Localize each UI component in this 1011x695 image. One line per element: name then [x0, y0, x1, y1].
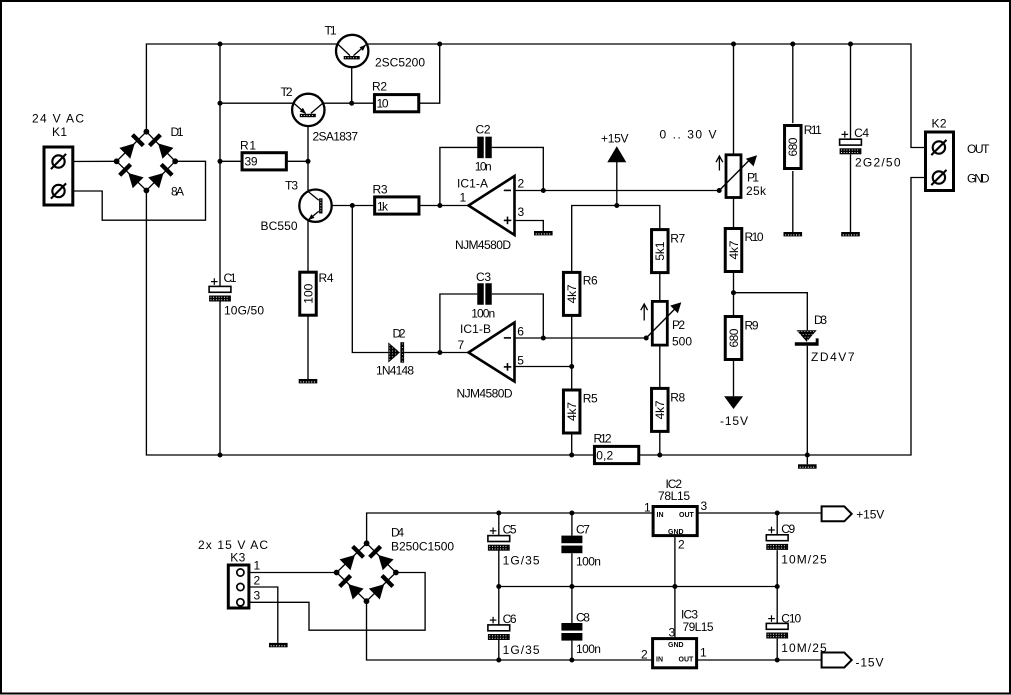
ground at IC1-A pin3: [534, 231, 553, 235]
svg-text:4k7: 4k7: [727, 240, 741, 259]
svg-text:1: 1: [644, 501, 651, 515]
resistor R3: [373, 183, 419, 215]
svg-text:7: 7: [458, 338, 465, 352]
svg-text:OUT: OUT: [679, 512, 695, 519]
wire K3 pin3 to D4 right vertex: [244, 573, 425, 631]
svg-text:NJM4580D: NJM4580D: [457, 387, 513, 401]
junction dots bottom section: [496, 511, 779, 663]
wire C5 branch: [498, 513, 500, 536]
wire T3 emitter to R4: [307, 220, 309, 271]
-15V output flag: [822, 653, 884, 670]
node dot D4 left: [334, 570, 340, 576]
svg-text:1: 1: [700, 646, 707, 660]
svg-text:+15V: +15V: [601, 132, 629, 146]
svg-text:78L15: 78L15: [658, 489, 690, 503]
svg-text:4k7: 4k7: [565, 284, 579, 303]
wire R10 to R9: [733, 272, 735, 315]
wire R6 to R5: [571, 316, 573, 389]
node R1/T2/T3: [306, 159, 311, 164]
capacitor C5: [488, 523, 540, 568]
svg-text:P1: P1: [747, 171, 759, 185]
ground below C4: [841, 232, 860, 236]
wire top rail right (regulated output to K2 OUT): [367, 44, 926, 148]
wire C2 feedback right: [492, 147, 544, 190]
transistor T2: [281, 85, 359, 144]
capacitor C8: [561, 611, 601, 656]
svg-text:BC550: BC550: [261, 219, 298, 233]
+15V output flag: [822, 506, 885, 521]
wire C1 branch lower: [219, 301, 221, 455]
node IC1-B pin7 / C3 feedback: [437, 350, 442, 355]
node R10/R9/D3: [731, 290, 736, 295]
node rail at R8: [657, 453, 662, 458]
svg-text:IN: IN: [656, 656, 663, 663]
wire D4 top vertex to +rail: [367, 513, 653, 543]
wire C3 feedback left: [440, 294, 477, 353]
potentiometer P2: [641, 301, 693, 348]
wire K3 pin2 to ground: [244, 587, 278, 643]
wire R1 right to node: [287, 160, 308, 162]
bridge rectifier D1: [117, 125, 184, 199]
diode D2: [376, 327, 414, 378]
node -rail at C6: [496, 658, 501, 663]
svg-text:T3: T3: [285, 179, 298, 193]
node dot D1 left: [114, 158, 120, 164]
svg-text:1N4148: 1N4148: [376, 364, 414, 378]
capacitor C7: [561, 523, 601, 569]
svg-text:D2: D2: [393, 327, 406, 341]
svg-text:100n: 100n: [471, 306, 495, 320]
screw terminal K2-1: [931, 140, 946, 155]
wire IC1-A pin3 to ground: [515, 221, 544, 232]
svg-text:25k: 25k: [746, 184, 767, 198]
wire P1 to R10: [733, 198, 735, 228]
terminal block K2: [926, 117, 991, 191]
svg-text:1: 1: [460, 190, 467, 204]
wire R11 top: [792, 44, 794, 123]
node IC1-A output / C2 feedback: [437, 203, 442, 208]
wire D2 cathode to IC1-B pin7: [404, 352, 468, 354]
wire R1 left: [220, 160, 242, 162]
wire R4 to ground: [307, 316, 309, 379]
svg-text:10M/25: 10M/25: [781, 553, 827, 567]
node +15V on supply tee: [614, 203, 619, 208]
pin K3-3: [237, 599, 244, 606]
resistor R9: [725, 317, 759, 360]
-15V supply arrow: [720, 396, 748, 428]
pin K3-1: [237, 569, 244, 576]
node pin5 / R6-R5: [569, 364, 574, 369]
svg-text:24 V AC: 24 V AC: [32, 112, 84, 126]
svg-text:3: 3: [254, 588, 261, 602]
svg-text:R3: R3: [373, 183, 388, 197]
svg-text:R5: R5: [583, 392, 598, 406]
zener diode D3: [795, 313, 855, 364]
screw terminal K2-2: [931, 170, 946, 185]
svg-text:2SC5200: 2SC5200: [375, 56, 425, 70]
resistor R2: [372, 80, 419, 112]
svg-text:C3: C3: [476, 270, 491, 284]
node top rail at R11: [790, 42, 795, 47]
screw terminal K1-1: [51, 154, 66, 169]
wire node to D2 anode: [352, 206, 388, 353]
node IC1-B pin6 / C3: [541, 336, 546, 341]
wire T1 base down: [351, 60, 353, 104]
svg-text:4k7: 4k7: [565, 402, 579, 421]
svg-text:6: 6: [517, 325, 524, 339]
resistor R1: [240, 138, 286, 170]
svg-text:R10: R10: [745, 230, 764, 244]
svg-text:680: 680: [786, 137, 800, 156]
capacitor C9: [766, 522, 827, 567]
wire IC1-A pin2 row to P1 wiper: [515, 190, 720, 192]
wire mid rail: [499, 586, 777, 588]
node P1 wiper: [717, 188, 722, 193]
svg-text:C6: C6: [503, 612, 517, 626]
resistor R4: [300, 271, 334, 315]
wire K1 pin2 loop to D1 right vertex: [65, 161, 206, 220]
svg-text:0 .. 30 V: 0 .. 30 V: [660, 128, 717, 142]
node dot D4 top: [364, 540, 370, 546]
node top rail at R2: [437, 42, 442, 47]
svg-text:ZD4V7: ZD4V7: [811, 350, 855, 364]
junction dots top section: [218, 42, 854, 458]
svg-text:-15V: -15V: [856, 655, 884, 669]
svg-text:10n: 10n: [475, 160, 492, 174]
wire C4 to ground: [850, 154, 852, 232]
wire R9 to -15V arrow: [733, 361, 735, 396]
capacitor C1: [209, 271, 264, 318]
node IC1-A pin2 / C2: [541, 188, 546, 193]
wire IC3 OUT to -15V flag: [697, 659, 822, 661]
node dot D1 top: [144, 129, 150, 135]
svg-text:2: 2: [678, 538, 685, 552]
wire R7 to P2: [659, 273, 661, 300]
resistor R7: [652, 230, 686, 273]
svg-text:D4: D4: [391, 526, 404, 540]
node rail at R5: [569, 453, 574, 458]
wire C10 branch: [776, 587, 778, 624]
node T1 base: [349, 101, 354, 106]
transistor T1: [325, 24, 426, 70]
resistor R5: [563, 390, 598, 433]
svg-text:3: 3: [669, 626, 676, 640]
svg-text:T1: T1: [325, 24, 337, 38]
svg-text:100n: 100n: [576, 642, 601, 656]
svg-text:D1: D1: [171, 125, 184, 139]
wire T2 collector to R2: [323, 102, 374, 104]
svg-text:R4: R4: [319, 271, 334, 285]
node dot D1 bottom: [144, 188, 150, 194]
node mid rail at C7/C8: [569, 584, 574, 589]
node R1 row at C1 branch: [218, 159, 223, 164]
svg-text:2SA1837: 2SA1837: [313, 130, 359, 144]
svg-text:IC1-A: IC1-A: [457, 176, 488, 190]
node mid rail at C9/C10: [775, 584, 780, 589]
wire P2 to R8: [659, 346, 661, 387]
node mid rail at GND pins: [672, 584, 677, 589]
bridge rectifier D4: [337, 526, 455, 602]
screw terminal K1-2: [51, 183, 66, 198]
node top rail at C1: [218, 42, 223, 47]
svg-text:GND: GND: [668, 529, 684, 536]
svg-text:P2: P2: [672, 318, 685, 332]
svg-text:39: 39: [245, 155, 258, 169]
svg-text:1k: 1k: [377, 199, 389, 213]
svg-text:C7: C7: [576, 523, 590, 537]
svg-text:100: 100: [301, 283, 315, 303]
svg-text:C8: C8: [576, 611, 590, 625]
wire K1 pin1 to D1 left vertex: [65, 160, 117, 162]
svg-text:1G/35: 1G/35: [503, 554, 540, 568]
node dot D4 right: [393, 570, 399, 576]
wire K3 pin1 to D4 left vertex: [244, 572, 337, 574]
wire node to D3: [734, 293, 808, 331]
svg-text:5: 5: [517, 354, 524, 368]
op-amp IC1-B: [457, 322, 525, 401]
node rail at D3: [805, 453, 810, 458]
node rail at C1: [218, 453, 223, 458]
ground at K3 pin2: [269, 643, 288, 647]
node -rail at C8: [569, 658, 574, 663]
capacitor C3: [471, 270, 495, 320]
node +15V rail at C9: [775, 511, 780, 516]
wire IC2 OUT to +15V flag: [697, 512, 822, 514]
svg-text:R9: R9: [745, 319, 759, 333]
wire R5 to rail: [571, 434, 573, 455]
node T3 base / D2 branch: [350, 203, 355, 208]
resistor R12: [594, 432, 639, 464]
capacitor C6: [488, 612, 540, 657]
svg-text:2: 2: [518, 176, 525, 190]
node +rail at C7: [569, 511, 574, 516]
svg-text:3: 3: [701, 499, 708, 513]
wire T3 base to R3: [323, 205, 374, 207]
svg-text:GND: GND: [967, 171, 990, 185]
svg-text:NJM4580D: NJM4580D: [455, 238, 511, 252]
node dot D4 bottom: [364, 598, 370, 604]
potentiometer P1: [716, 155, 767, 198]
svg-text:1G/35: 1G/35: [503, 643, 540, 657]
svg-text:OUT: OUT: [679, 656, 695, 663]
ground below R4: [299, 379, 318, 383]
svg-text:C9: C9: [781, 522, 795, 536]
node T2 row at C1 branch: [218, 101, 223, 106]
regulator IC3 79L15: [641, 608, 714, 668]
svg-text:10: 10: [377, 97, 389, 111]
regulator IC2 78L15: [644, 477, 708, 552]
svg-text:R8: R8: [670, 391, 685, 405]
wire C6 branch: [498, 587, 500, 626]
wire T2 emitter row: [220, 102, 294, 104]
wire supply tee to R6 and R7: [572, 206, 660, 272]
svg-text:R6: R6: [583, 274, 598, 288]
svg-text:10M/25: 10M/25: [781, 641, 827, 655]
svg-text:0,2: 0,2: [596, 449, 613, 463]
wire T2 base / T3 collector vertical: [307, 117, 309, 191]
svg-text:-15V: -15V: [720, 414, 748, 428]
resistor R6: [563, 272, 598, 315]
svg-text:C5: C5: [503, 523, 517, 537]
capacitor C2: [475, 122, 492, 173]
wire C7 branch: [571, 513, 573, 536]
svg-text:500: 500: [672, 335, 692, 349]
svg-text:C10: C10: [781, 612, 801, 626]
svg-text:3: 3: [518, 205, 525, 219]
svg-text:5k1: 5k1: [653, 241, 667, 260]
node mid rail at C5/C6: [496, 584, 501, 589]
wire IC1-B pin5 row: [515, 366, 572, 368]
svg-text:680: 680: [727, 328, 741, 347]
wire bottom ground rail left of R12: [146, 191, 593, 456]
svg-text:D3: D3: [814, 313, 827, 327]
svg-text:R11: R11: [804, 123, 822, 137]
resistor R11: [785, 123, 823, 169]
wire R11 to ground: [792, 171, 794, 232]
terminal block K3: [198, 538, 268, 608]
wire IC1-B pin6 row to P2 wiper: [515, 337, 647, 339]
svg-text:79L15: 79L15: [683, 620, 714, 634]
terminal block K1: [32, 112, 84, 206]
svg-text:R2: R2: [372, 80, 387, 94]
node +rail at C5: [496, 511, 501, 516]
svg-text:R7: R7: [670, 231, 685, 245]
wire R8 to rail: [659, 432, 661, 455]
svg-text:8A: 8A: [171, 185, 184, 199]
wire C8 branch: [571, 587, 573, 624]
wire IC2 GND / IC3 GND vertical: [674, 537, 676, 639]
svg-text:K2: K2: [932, 117, 947, 131]
op-amp IC1-A: [455, 176, 525, 252]
svg-text:K1: K1: [52, 125, 67, 139]
wire C1 branch upper: [219, 44, 221, 287]
svg-text:R12: R12: [594, 432, 612, 446]
svg-text:4k7: 4k7: [653, 400, 667, 419]
transistor T3: [261, 179, 332, 234]
svg-text:GND: GND: [668, 642, 684, 649]
ground on rail below D3: [798, 464, 817, 468]
wire R2 right to top rail: [420, 44, 440, 103]
wire D3 to rail and ground stub: [806, 346, 808, 465]
node P2 wiper: [644, 336, 649, 341]
svg-text:100n: 100n: [576, 555, 601, 569]
svg-text:K3: K3: [230, 551, 245, 565]
svg-text:10G/50: 10G/50: [224, 304, 264, 318]
svg-text:IN: IN: [657, 512, 664, 519]
node top rail at P1: [731, 42, 736, 47]
svg-text:2: 2: [641, 648, 648, 662]
wire C4 top: [850, 44, 852, 140]
svg-text:C1: C1: [224, 271, 237, 285]
wire C2 feedback left: [440, 147, 477, 205]
node dot D1 right: [172, 158, 178, 164]
svg-text:C2: C2: [476, 122, 491, 136]
wire D4 bottom vertex to -rail: [367, 601, 653, 660]
ground below R11: [784, 232, 803, 236]
resistor R10: [725, 229, 764, 272]
svg-text:2: 2: [254, 573, 261, 587]
node top rail at C4: [848, 42, 853, 47]
svg-text:B250C1500: B250C1500: [391, 540, 454, 554]
wire C9 branch: [776, 513, 778, 535]
svg-text:C4: C4: [854, 126, 869, 140]
pin K3-2: [237, 583, 244, 590]
svg-text:+15V: +15V: [856, 507, 884, 521]
wire P1 top: [733, 44, 735, 154]
wire C3 feedback right: [492, 294, 544, 338]
svg-text:IC1-B: IC1-B: [460, 322, 491, 336]
capacitor C10: [766, 612, 827, 656]
resistor R8: [652, 388, 686, 431]
svg-text:OUT: OUT: [967, 142, 990, 156]
wire +15V stem: [616, 162, 618, 206]
wire top rail left (unregulated +V): [146, 44, 338, 132]
svg-text:1: 1: [254, 559, 261, 573]
svg-text:R1: R1: [240, 138, 256, 152]
wire bottom ground rail right of R12 to K2 GND: [640, 178, 926, 456]
node -15V rail at C10: [775, 658, 780, 663]
wire R3 right to IC1-A output: [420, 205, 468, 207]
+15V supply arrow: [601, 132, 629, 163]
svg-text:T2: T2: [281, 85, 293, 99]
capacitor C4: [840, 126, 901, 170]
